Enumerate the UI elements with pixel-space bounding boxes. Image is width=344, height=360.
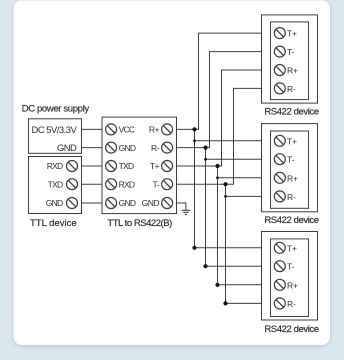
- svg-text:GND: GND: [57, 143, 77, 154]
- RS422 device 3 box: [262, 232, 318, 321]
- svg-text:GND: GND: [46, 198, 63, 208]
- net T+ : wire to device3 R+: [218, 284, 262, 286]
- terminal R+: [274, 172, 285, 183]
- svg-text:R-: R-: [287, 192, 296, 202]
- junction dot R-: [203, 146, 207, 150]
- terminal GND: [67, 198, 78, 209]
- net T- : branch to device2 R-: [226, 195, 262, 197]
- wire GND supply: [82, 147, 103, 149]
- svg-text:VCC: VCC: [119, 125, 135, 135]
- ground: [182, 210, 190, 214]
- label: TTL to RS422(B): [107, 218, 172, 229]
- svg-text:TXD: TXD: [119, 161, 134, 171]
- terminal T+: [274, 28, 285, 39]
- terminal R-: [274, 83, 285, 94]
- svg-text:TTL device: TTL device: [30, 218, 77, 229]
- label: RS422 device 3: [264, 324, 318, 335]
- terminal R-: [274, 191, 285, 202]
- terminal GND: [106, 142, 117, 153]
- junction dot T- branch2: [224, 195, 227, 198]
- net T- : wire to device3 R-: [226, 302, 262, 304]
- junction dot R- device3: [203, 264, 207, 268]
- terminal RXD: [106, 179, 117, 190]
- terminal TXD: [67, 179, 78, 190]
- wire GND to earth: [177, 203, 186, 210]
- svg-text:R+: R+: [287, 66, 298, 76]
- net T- : wire to device1 R-: [177, 88, 262, 184]
- junction dot R- branch2: [204, 158, 207, 161]
- converter U1: TTL to RS422(B) box: [102, 117, 177, 214]
- terminal T-: [274, 261, 285, 272]
- net T- : bus down: [225, 184, 227, 303]
- svg-text:T+: T+: [287, 243, 297, 253]
- svg-text:RS422 device: RS422 device: [264, 106, 318, 117]
- terminal T-: [162, 179, 173, 190]
- terminal R-: [274, 298, 285, 309]
- junction dot T+ branch2: [216, 176, 219, 179]
- RS422 device 1 box: [262, 15, 318, 103]
- terminal T+: [162, 161, 173, 172]
- svg-text:T-: T-: [152, 179, 159, 189]
- junction dot R+ device3: [192, 246, 196, 250]
- net R- : wire to device1 T-: [177, 52, 262, 148]
- svg-text:RS422 device: RS422 device: [264, 215, 318, 226]
- terminal R+: [162, 124, 173, 135]
- svg-text:DC power supply: DC power supply: [22, 104, 90, 115]
- svg-text:T-: T-: [287, 47, 295, 57]
- net R+ : bus down: [194, 129, 196, 247]
- junction dot R+: [192, 127, 196, 131]
- svg-text:T+: T+: [287, 136, 297, 146]
- svg-text:R-: R-: [287, 84, 296, 94]
- svg-text:T-: T-: [287, 262, 295, 272]
- wire VCC supply: [82, 128, 103, 130]
- terminal T-: [274, 154, 285, 165]
- net T+ : wire to device1 R+: [177, 70, 262, 166]
- svg-text:R+: R+: [287, 280, 298, 290]
- RS422 device 2 box: [262, 124, 318, 212]
- terminal T+: [274, 135, 285, 146]
- terminal R-: [162, 142, 173, 153]
- svg-text:R-: R-: [151, 143, 160, 153]
- terminal TXD: [106, 161, 117, 172]
- TTL device box: [29, 157, 82, 214]
- DC power supply box: [29, 119, 82, 154]
- net T+ : branch to device2 R+: [218, 177, 262, 179]
- svg-text:GND: GND: [119, 198, 136, 208]
- junction dot T+: [215, 164, 219, 168]
- junction dot R+ branch2: [193, 139, 196, 142]
- junction dot T+ device3: [215, 283, 219, 287]
- svg-text:RXD: RXD: [47, 161, 63, 171]
- terminal GND right: [162, 198, 173, 209]
- label: RS422 device 2: [264, 215, 318, 226]
- svg-text:T-: T-: [287, 155, 295, 165]
- terminal T+: [274, 242, 285, 253]
- net R+ : branch to device2 T+: [195, 140, 262, 142]
- label: RS422 device 1: [264, 106, 318, 117]
- wire RXD-TXD: [82, 165, 103, 167]
- net T+ : bus down: [217, 166, 219, 285]
- terminal GND2: [106, 198, 117, 209]
- wire GND-GND: [82, 202, 103, 204]
- wire TXD-RXD: [82, 183, 103, 185]
- svg-text:GND: GND: [119, 143, 136, 153]
- svg-text:DC 5V/3.3V: DC 5V/3.3V: [32, 125, 78, 136]
- svg-text:TXD: TXD: [48, 179, 63, 189]
- svg-text:T+: T+: [287, 29, 297, 39]
- svg-text:GND: GND: [142, 198, 160, 208]
- svg-text:R-: R-: [287, 299, 296, 309]
- terminal VCC: [106, 124, 117, 135]
- terminal T-: [274, 46, 285, 57]
- net R- : bus down: [205, 148, 207, 267]
- svg-text:T+: T+: [150, 161, 160, 171]
- net R+ : wire to device1 T+: [177, 33, 262, 129]
- net R+ : wire to device3 T+: [195, 247, 262, 249]
- svg-text:TTL to RS422(B): TTL to RS422(B): [107, 218, 172, 229]
- svg-text:RS422 device: RS422 device: [264, 324, 318, 335]
- label: DC power supply: [22, 104, 90, 115]
- svg-text:RXD: RXD: [119, 179, 135, 189]
- svg-text:R+: R+: [287, 173, 298, 183]
- terminal R+: [274, 65, 285, 76]
- svg-text:R+: R+: [149, 125, 160, 135]
- net R- : wire to device3 T-: [206, 265, 262, 267]
- junction dot T- device3: [223, 301, 227, 305]
- junction dot T-: [223, 182, 227, 186]
- terminal R+: [274, 279, 285, 290]
- label: TTL device: [30, 218, 77, 229]
- terminal RXD: [67, 161, 78, 172]
- net R- : branch to device2 T-: [206, 158, 262, 160]
